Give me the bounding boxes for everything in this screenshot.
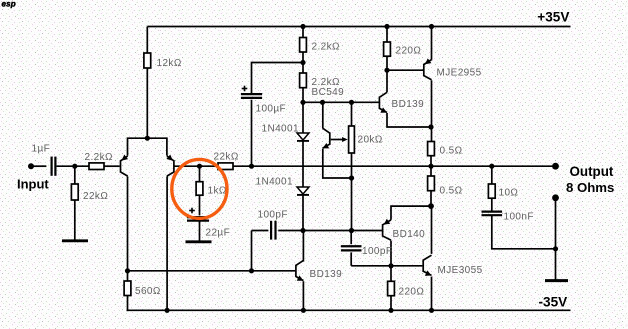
wire 560 to rail <box>126 296 129 311</box>
wire MJE2955 collector <box>431 80 433 141</box>
node A junction <box>72 164 77 169</box>
wire node D to D1 <box>302 102 304 133</box>
wire BD140 emitter <box>391 206 431 220</box>
wire 1k to C22u <box>199 195 201 215</box>
svg-text:220Ω: 220Ω <box>396 46 422 57</box>
resistor 0.5 upper <box>428 142 463 157</box>
svg-text:10Ω: 10Ω <box>499 188 519 199</box>
transistor BC549 <box>312 87 345 148</box>
label Input <box>17 176 49 191</box>
svg-text:100pF: 100pF <box>362 246 392 257</box>
wire BD139u emitter <box>387 113 431 127</box>
svg-text:22kΩ: 22kΩ <box>214 152 239 163</box>
node G junction <box>428 203 434 209</box>
junction 20k top <box>349 100 354 105</box>
tail junction <box>145 136 150 141</box>
resistor 2.2k a <box>300 38 340 53</box>
junction speaker gnd <box>553 246 558 251</box>
wire C100u to line <box>251 100 253 167</box>
output terminal plus <box>552 163 559 170</box>
node OUT junction <box>428 164 433 169</box>
transistor Q1 PNP <box>121 155 129 177</box>
junction zobel <box>489 164 494 169</box>
wire node E to node F <box>303 230 352 232</box>
junction feedback line C100u <box>249 164 254 169</box>
transistor MJE2955 PNP <box>424 58 482 79</box>
wire BC549 collector <box>322 102 324 128</box>
junction BD139L rail <box>301 308 306 313</box>
resistor 220 lower <box>388 266 425 311</box>
node C junction <box>300 60 305 65</box>
wire MJE3055 collector <box>431 206 433 254</box>
junction rail 2.2k <box>300 24 305 29</box>
wire 22u to ground <box>199 221 201 241</box>
label -35V <box>539 295 568 310</box>
resistor 22k feedback <box>200 152 252 170</box>
junction MJE3055 rail <box>429 308 434 313</box>
svg-text:12kΩ: 12kΩ <box>157 58 182 69</box>
svg-text:esp: esp <box>2 0 16 8</box>
node B junction <box>197 164 202 169</box>
wire collector line <box>128 270 252 272</box>
wire Q1 collector down <box>127 176 129 281</box>
junction base BD139L <box>249 268 254 273</box>
wire node F to BD140 <box>352 230 382 232</box>
wire BD139L base <box>252 270 296 272</box>
-35V rail wire <box>127 309 571 311</box>
resistor 2.2k input <box>85 152 114 169</box>
svg-text:2.2kΩ: 2.2kΩ <box>85 152 114 163</box>
ground 22uF <box>186 240 212 243</box>
capacitor 100nF <box>482 198 534 222</box>
label +35V <box>537 10 569 25</box>
wire 20k node to node F <box>351 178 353 231</box>
wire 2.2k b to node D <box>302 88 304 103</box>
junction 20k bottom <box>349 175 354 180</box>
svg-text:2.2kΩ: 2.2kΩ <box>312 42 341 53</box>
svg-text:0.5Ω: 0.5Ω <box>440 146 463 157</box>
junction 220L rail <box>388 308 393 313</box>
svg-text:0.5Ω: 0.5Ω <box>440 186 463 197</box>
diode 1N4001 a <box>262 124 310 141</box>
junction rail 220 <box>384 24 389 29</box>
wire Q1 emitter to tail <box>128 138 167 155</box>
svg-text:100µF: 100µF <box>256 104 287 115</box>
resistor 2.2k b <box>300 73 340 88</box>
svg-text:22kΩ: 22kΩ <box>83 191 108 202</box>
junction MJE3055 base <box>388 263 393 268</box>
wire 2.2k to Q1 base <box>104 165 120 167</box>
transistor Q2 PNP <box>166 154 174 176</box>
svg-text:BD139: BD139 <box>310 269 343 280</box>
wire MJE3055 base <box>391 265 422 267</box>
wire between 2.2k <box>302 52 304 73</box>
wire Q2 base to node B <box>174 165 199 167</box>
wiper arrow 20k <box>331 137 348 142</box>
svg-text:Input: Input <box>17 176 49 191</box>
wire BD140 collector <box>390 241 392 266</box>
svg-text:1N4001: 1N4001 <box>262 124 299 135</box>
junction drivers out <box>428 124 433 129</box>
wire BC549 emitter <box>323 149 352 178</box>
wire C100u top to node C <box>252 63 304 95</box>
junction rail MJE2955 <box>429 24 434 29</box>
ground speaker <box>545 279 568 282</box>
wire rail to 2.2k a <box>302 27 304 38</box>
wire C1 to node A <box>57 165 89 167</box>
node F junction <box>349 228 354 233</box>
resistor 10 <box>488 166 518 199</box>
svg-text:+35V: +35V <box>537 10 569 25</box>
svg-text:Output: Output <box>570 164 614 179</box>
resistor 0.5 lower <box>428 176 463 197</box>
capacitor 1uF <box>32 144 56 176</box>
wire Q2 collector down <box>166 176 168 310</box>
capacitor 22uF <box>187 208 230 239</box>
wire feedback to output node <box>252 165 432 167</box>
wire MJE3055 emitter <box>431 277 433 311</box>
transistor MJE3055 NPN <box>423 255 482 276</box>
wire speaker return <box>555 198 557 280</box>
wire MJE2955 emitter <box>431 27 433 60</box>
wire 0.5a to out <box>430 156 432 176</box>
svg-text:MJE2955: MJE2955 <box>437 68 482 79</box>
output terminal minus <box>552 194 559 201</box>
diode 1N4001 b <box>256 177 310 195</box>
svg-text:-35V: -35V <box>539 295 568 310</box>
wire input to C1 <box>31 165 46 167</box>
wire node E to BD139L <box>302 231 304 262</box>
svg-text:560Ω: 560Ω <box>135 286 161 297</box>
resistor 220 upper <box>384 27 422 71</box>
node E junction <box>300 228 305 233</box>
input terminal <box>28 163 34 169</box>
transistor BD139 lower <box>296 260 342 280</box>
highlight circle <box>172 159 227 218</box>
wire 0.5b to node G <box>430 191 432 206</box>
resistor 22k input <box>71 166 108 240</box>
ground input <box>62 239 88 242</box>
capacitor 100uF <box>241 86 286 115</box>
wire output line <box>431 165 556 167</box>
resistor 12k <box>144 27 182 139</box>
wire D2 to node E <box>302 195 304 231</box>
wire BD139L emitter <box>302 281 304 310</box>
svg-text:BD140: BD140 <box>393 229 426 240</box>
+35V rail wire <box>147 26 570 28</box>
wire BD139u collector <box>386 70 388 92</box>
label Output <box>566 164 614 195</box>
svg-text:1N4001: 1N4001 <box>256 177 293 188</box>
svg-text:BD139: BD139 <box>392 99 425 110</box>
svg-text:220Ω: 220Ω <box>399 287 425 298</box>
wire bias line <box>303 101 379 103</box>
capacitor 100pF upper <box>252 210 304 271</box>
node D junction <box>300 100 305 105</box>
resistor 1k <box>196 166 227 196</box>
wire MJE2955 base <box>387 69 423 71</box>
resistor 560 <box>124 281 161 297</box>
junction Q1c 560 <box>125 268 130 273</box>
junction 220 BD139 <box>384 68 389 73</box>
svg-text:100nF: 100nF <box>504 212 534 223</box>
esp logo <box>2 0 16 8</box>
svg-text:20kΩ: 20kΩ <box>358 135 383 146</box>
wire D1 to D2 <box>302 141 304 187</box>
transistor BD139 upper <box>379 92 424 112</box>
junction Q2 collector rail <box>165 308 170 313</box>
transistor BD140 PNP <box>383 219 426 240</box>
svg-text:8 Ohms: 8 Ohms <box>566 180 614 195</box>
svg-text:22µF: 22µF <box>206 228 231 239</box>
potentiometer 20k <box>349 102 383 178</box>
svg-text:MJE3055: MJE3055 <box>438 265 483 276</box>
svg-text:BC549: BC549 <box>312 87 345 98</box>
capacitor 100pF lower <box>341 231 392 266</box>
svg-text:1kΩ: 1kΩ <box>208 186 227 197</box>
junction BC549 collector <box>320 100 325 105</box>
svg-text:1µF: 1µF <box>32 144 51 155</box>
svg-text:100pF: 100pF <box>258 210 288 221</box>
wire zobel to gnd line <box>492 215 556 249</box>
